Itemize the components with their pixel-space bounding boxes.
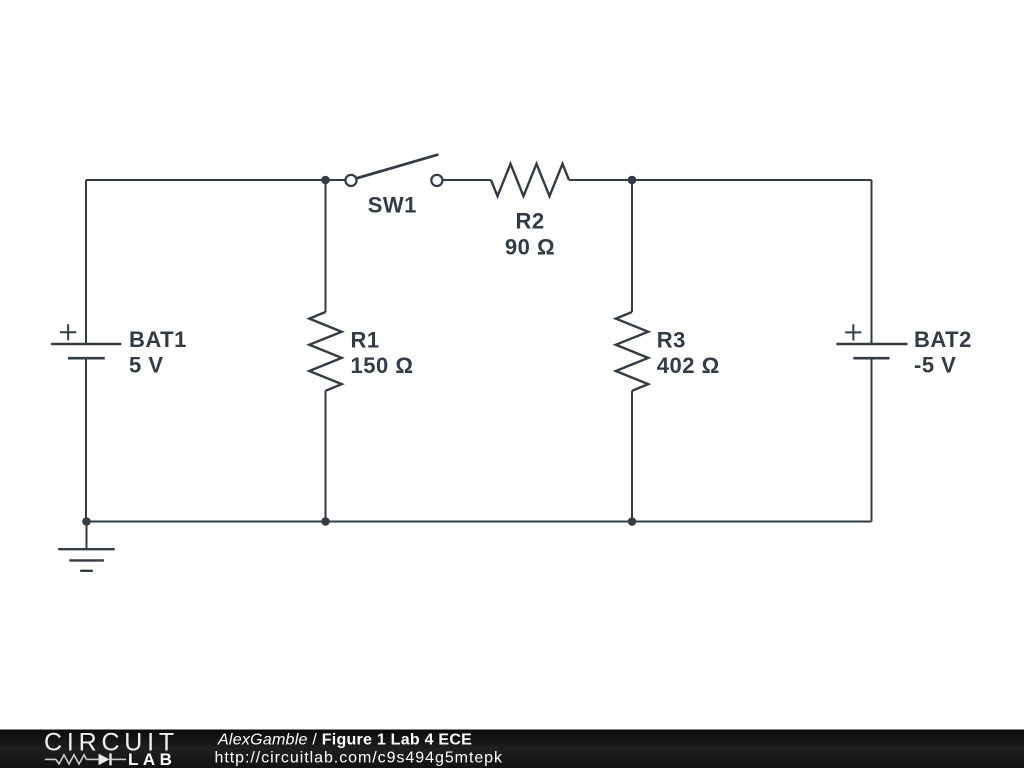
battery BAT1 negative plate (68, 357, 105, 360)
svg-text:90 Ω: 90 Ω (505, 234, 555, 259)
svg-text:150 Ω: 150 Ω (351, 353, 414, 378)
CircuitLab logo schematic squiggle: wire lead-in (45, 758, 56, 760)
ground bar 1 (58, 548, 114, 550)
svg-text:SW1: SW1 (368, 193, 417, 218)
svg-text:BAT1: BAT1 (129, 327, 187, 352)
wire R1 branch bottom (325, 391, 327, 522)
svg-text:R2: R2 (515, 209, 544, 234)
svg-text:AlexGamble / Figure 1 Lab 4 EC: AlexGamble / Figure 1 Lab 4 ECE (217, 732, 472, 749)
wire right rail upper (to BAT2 + plate) (871, 180, 873, 344)
footer watermark bar (0, 730, 1024, 768)
svg-text:R1: R1 (351, 328, 380, 353)
resistor R2 (491, 164, 569, 196)
ground bar 3 (80, 570, 93, 572)
node junction ground / bottom-left (82, 517, 91, 526)
battery BAT2 plus sign (845, 324, 861, 340)
wire right rail lower (BAT2 - plate to bottom rail) (871, 358, 873, 521)
resistor R3 (616, 312, 648, 391)
switch SW1 left terminal (345, 175, 356, 186)
CircuitLab logo schematic squiggle: resistor zigzag (56, 755, 87, 764)
CircuitLab logo schematic squiggle: diode triangle (99, 754, 110, 766)
resistor R1 (309, 312, 341, 391)
battery BAT1 positive plate (51, 343, 121, 346)
wire left rail lower (BAT1 - plate to bottom rail) (85, 358, 87, 521)
battery BAT2 positive plate (836, 343, 907, 346)
svg-text:402 Ω: 402 Ω (657, 353, 720, 378)
wire left rail upper (to BAT1 + plate) (85, 180, 87, 344)
ground bar 2 (69, 559, 104, 561)
node junction R1 top (321, 176, 330, 185)
svg-text:R3: R3 (657, 328, 686, 353)
wire R3 branch bottom (631, 391, 633, 522)
node junction R3 bottom (628, 517, 637, 526)
svg-text:LAB: LAB (128, 750, 176, 768)
CircuitLab logo schematic squiggle: wire out (112, 758, 127, 760)
svg-text:http://circuitlab.com/c9s494g5: http://circuitlab.com/c9s494g5mtepk (215, 750, 504, 767)
svg-text:-5 V: -5 V (914, 353, 956, 378)
battery BAT1 plus sign (60, 324, 76, 340)
node junction R1 bottom (321, 517, 330, 526)
switch SW1 right terminal (431, 175, 442, 186)
wire R2 to top-right corner (569, 179, 872, 181)
wire top rail left (BAT1 top to SW1 left terminal) (86, 179, 345, 181)
ground stem (86, 522, 88, 550)
wire R1 branch top (325, 180, 327, 312)
battery BAT2 negative plate (853, 357, 889, 360)
svg-text:5 V: 5 V (129, 353, 164, 378)
CircuitLab logo schematic squiggle: diode cathode bar (109, 753, 111, 765)
switch SW1 blade (357, 155, 437, 178)
wire bottom rail (86, 521, 872, 523)
node junction R2/R3 top (628, 176, 637, 185)
wire SW1 right terminal to R2 (444, 179, 492, 181)
wire R3 branch top (631, 180, 633, 312)
CircuitLab logo schematic squiggle: wire to diode (87, 758, 99, 760)
svg-text:BAT2: BAT2 (914, 327, 972, 352)
